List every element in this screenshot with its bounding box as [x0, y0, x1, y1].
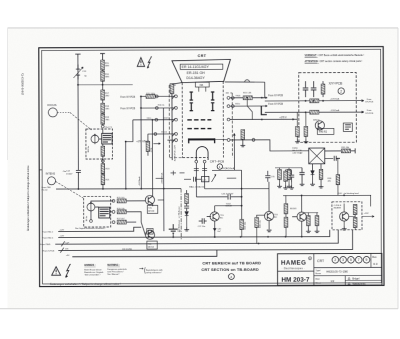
junction dot row3 rail — [152, 119, 154, 121]
wires Q5 res — [304, 213, 318, 229]
svg-text:+12V(AV)/5mA: +12V(AV)/5mA — [220, 167, 234, 170]
svg-text:Änderungen vorbehalten / Subje: Änderungen vorbehalten / Subject to chan… — [27, 165, 30, 231]
CRT-PCB dashed box top segs — [169, 85, 232, 93]
lightning bolt top — [147, 56, 152, 68]
svg-text:CRT TRAF: CRT TRAF — [292, 151, 303, 154]
wire row y168 — [275, 168, 302, 170]
junction dot R3 — [261, 119, 263, 121]
wires col285 — [285, 196, 287, 237]
wire corner x133 — [126, 120, 133, 142]
rev cell divider — [370, 253, 372, 267]
potentiometer P2 INTENS — [87, 202, 95, 212]
transistor T3 — [145, 195, 154, 204]
svg-text:+12V: +12V — [59, 230, 64, 232]
svg-text:2: 2 — [334, 258, 336, 262]
bracket note bottom — [139, 267, 162, 274]
label WARNING block — [107, 264, 126, 276]
wire intens links — [91, 201, 114, 219]
junction circle R1a — [231, 96, 234, 99]
XY row -12V — [265, 111, 364, 113]
terminal box bus1 — [147, 229, 153, 235]
CRT pin row L5 — [167, 139, 177, 143]
circled 5 title — [348, 257, 355, 264]
svg-text:4,7n: 4,7n — [202, 179, 206, 181]
drawing frame outer border — [39, 47, 384, 287]
svg-text:Brügel: Brügel — [352, 278, 359, 281]
intens potentiometer dashed box — [84, 197, 111, 227]
transistor Q5 — [297, 212, 306, 221]
box 4n7 — [202, 176, 209, 181]
svg-text:Ref 7,5: Ref 7,5 — [105, 127, 112, 129]
wire drop x173 — [172, 233, 174, 237]
transistor XY — [315, 121, 324, 130]
resistor Q5a — [307, 216, 311, 226]
svg-text:R15/2: R15/2 — [161, 132, 167, 134]
bus junction dots — [172, 236, 302, 245]
ground lp3 — [287, 184, 292, 188]
svg-text:BF258: BF258 — [148, 211, 155, 213]
board boundary dashdot — [180, 189, 182, 240]
ground XYlow1 — [295, 139, 300, 143]
junction L1 — [140, 96, 142, 98]
CRT-PCB dashed box bottom left seg — [169, 157, 182, 159]
svg-text:An/TB-PCB +12V: An/TB-PCB +12V — [173, 145, 176, 162]
label C-PULS — [334, 205, 342, 210]
svg-text:BF258: BF258 — [148, 246, 155, 248]
heater cap symbol left — [194, 169, 199, 171]
warning triangle bottom — [52, 267, 61, 276]
svg-text:Änderungen vorbehalten ! / Sub: Änderungen vorbehalten ! / Subject to ch… — [50, 282, 121, 286]
resistor leftpair3 — [287, 170, 291, 180]
bus line 5 — [72, 250, 217, 257]
wire rail163 extension — [163, 189, 165, 231]
svg-text:Blatt: Blatt — [316, 277, 321, 280]
ground leftpair1 — [300, 182, 305, 186]
top net from trapezoid right — [225, 81, 265, 83]
terminal after bridge — [350, 148, 355, 153]
svg-text:safety relevance !: safety relevance ! — [146, 271, 162, 274]
junction circle R2a — [231, 105, 234, 108]
svg-text:R16 1k: R16 1k — [158, 105, 165, 107]
resistor R1 — [101, 60, 105, 70]
paper left edge — [7, 28, 9, 160]
node junction wire y84 — [78, 84, 133, 86]
row y188.8 — [205, 188, 269, 190]
resistor row2 — [117, 210, 126, 214]
circled 3 title — [340, 257, 347, 264]
wire drop x265 — [264, 82, 266, 98]
row +10V blanking — [283, 194, 371, 196]
junction dots on bus188 — [77, 188, 164, 190]
row pin 1 — [112, 200, 115, 203]
svg-text:+170 V: +170 V — [279, 117, 287, 119]
svg-text:0.3: 0.3 — [373, 262, 378, 266]
paper right edge — [397, 28, 399, 309]
slash mark — [212, 174, 217, 182]
deflection plate X upper — [187, 119, 211, 121]
CRT envelope dashed left — [181, 83, 183, 158]
svg-text:+12V/8mA: +12V/8mA — [138, 176, 141, 186]
svg-text:WALL 1/2 AU/10: WALL 1/2 AU/10 — [189, 185, 205, 188]
junction dots rail 241 — [241, 188, 243, 207]
resistor col285 upper — [284, 204, 288, 214]
arrow XYrow2 — [362, 111, 364, 113]
arrow R3 — [292, 119, 294, 121]
ground Q5b — [315, 229, 320, 233]
CRT type box — [180, 64, 223, 69]
CRT heater arch — [196, 147, 208, 160]
potentiometer P1 FOCUS — [91, 134, 99, 144]
CRT pin row L4 — [148, 133, 178, 137]
svg-text:R25 1k5: R25 1k5 — [117, 197, 125, 199]
ground col right1 — [283, 185, 288, 189]
resistor R4 — [101, 103, 105, 113]
circled 2 title — [332, 257, 339, 264]
svg-text:From: From — [367, 99, 372, 101]
comp row upper marks — [171, 171, 185, 176]
mid pin circle row L2 — [155, 107, 158, 110]
junction dots blanking — [301, 194, 345, 196]
HAMEG logo — [281, 257, 312, 271]
svg-text:R: R — [309, 257, 311, 260]
capacitor C14 — [76, 169, 81, 189]
bridge rectifier box — [309, 148, 325, 164]
heater cap symbol right — [202, 169, 207, 171]
note line 2 top right — [305, 60, 363, 63]
ground T16 — [267, 230, 272, 232]
pin chain below focus box — [101, 160, 104, 163]
svg-text:VORSICHT : CRT Beule enthält e: VORSICHT : CRT Beule enthält elektrostat… — [305, 54, 365, 57]
ground Q6 — [342, 226, 347, 230]
svg-text:N6: N6 — [200, 83, 204, 87]
dashed box C-PULS — [332, 202, 362, 230]
capacitor leftpair1 — [299, 168, 304, 182]
svg-text:HAMEG: HAMEG — [281, 260, 307, 267]
svg-text:BD243: BD243 — [290, 208, 297, 210]
pin socket chain bottom — [101, 125, 104, 128]
svg-text:CRT: CRT — [198, 54, 207, 58]
diode mark emitter — [213, 228, 217, 231]
wide ground mark — [169, 224, 178, 233]
svg-text:INTENS: INTENS — [46, 172, 56, 176]
capacitor C15 col — [186, 190, 188, 194]
note line 1 top right — [305, 54, 365, 57]
svg-text:C45 4n7/63V: C45 4n7/63V — [221, 194, 234, 196]
svg-text:R26 10k: R26 10k — [117, 208, 126, 210]
svg-text:100n: 100n — [147, 118, 152, 120]
ground XYlow2 — [304, 139, 309, 143]
wire Z1 down — [320, 179, 322, 184]
resistor XY3 — [321, 84, 325, 94]
resistor col285 lower — [284, 217, 288, 227]
svg-text:4n7: 4n7 — [218, 231, 221, 233]
resistor Z1 — [319, 169, 323, 179]
wires Q6 — [344, 203, 355, 229]
svg-text:· Oscilloscopes ·: · Oscilloscopes · — [282, 267, 306, 270]
warning triangle top — [137, 58, 144, 67]
CRT pin row R1 — [227, 96, 265, 99]
heater pin left — [195, 160, 198, 163]
svg-text:–12V/5mA: –12V/5mA — [330, 109, 340, 112]
ground R4 — [240, 143, 245, 147]
svg-text:CRT BEREICH auf TB BOARD: CRT BEREICH auf TB BOARD — [202, 260, 261, 265]
svg-text:ATTENTION : CRT section contai: ATTENTION : CRT section contains safety … — [305, 60, 363, 63]
svg-text:Name: Name — [316, 273, 322, 275]
svg-text:Waldschmitt: Waldschmitt — [352, 283, 365, 286]
rail x163 — [162, 108, 164, 189]
relay box XY — [343, 123, 352, 131]
row y205.8 — [215, 205, 242, 207]
resistor R2 — [101, 71, 105, 81]
wire row2 stub — [110, 211, 112, 213]
bus line 1 — [58, 227, 141, 231]
diagonal link rows R1R2 — [247, 98, 252, 120]
svg-text:HM203,/05–73–1980: HM203,/05–73–1980 — [326, 272, 348, 274]
circled number 1 — [217, 164, 222, 169]
CRT tube trapezoid — [172, 59, 231, 82]
resistor Q6b — [353, 217, 357, 227]
svg-text:7: 7 — [358, 258, 360, 262]
svg-text:HM 203-7: HM 203-7 — [281, 276, 310, 283]
deflection plate Y2 right — [211, 103, 214, 111]
transistor Q6 — [340, 212, 349, 221]
svg-text:From X/Y-PCB: From X/Y-PCB — [120, 107, 135, 110]
diode D16 — [185, 212, 189, 228]
svg-text:INVERT: INVERT — [334, 208, 342, 210]
junction dot — [102, 84, 104, 86]
main bus y188 — [56, 188, 181, 190]
heater pin right — [203, 160, 206, 163]
svg-text:CRT–PCB: CRT–PCB — [210, 159, 224, 163]
svg-text:R35 22k: R35 22k — [245, 222, 247, 229]
resistor R1row — [243, 96, 252, 100]
label HINWEIS block — [84, 265, 104, 276]
rail x241.5 — [241, 170, 243, 219]
intens module box — [99, 207, 110, 218]
heater drop wires — [196, 163, 204, 197]
resistor chain R21 — [101, 175, 105, 185]
wire R4 res stub — [242, 140, 244, 143]
CRT pin row R2 — [227, 105, 261, 108]
capacitor under C15 — [184, 204, 189, 212]
svg-text:Nur Original-Ersatzteile verwe: Nur Original-Ersatzteile verwenden ! — [75, 227, 106, 230]
label +12V arrow right — [362, 213, 374, 218]
bleeder chain wire — [102, 60, 104, 125]
circled 9 title — [363, 256, 370, 263]
junction L2 — [140, 107, 142, 109]
label box T15 row — [226, 203, 233, 207]
svg-text:Ser. Manual !: Ser. Manual ! — [107, 273, 120, 276]
svg-text:auf TB-Board · on TB-Board: auf TB-Board · on TB-Board — [178, 207, 181, 233]
wires mid resistors — [242, 215, 257, 243]
deflection plate X lower — [187, 128, 211, 130]
resistor x172 top — [170, 84, 174, 94]
slash bus4 — [60, 248, 64, 253]
transistor T4 — [145, 230, 154, 239]
resistor C15 — [185, 194, 189, 204]
junction dot — [77, 84, 79, 86]
resistor R36 — [255, 218, 259, 228]
lightning bolt bottom — [65, 264, 71, 278]
resistor after bridge — [341, 149, 350, 153]
svg-text:2: 2 — [340, 90, 342, 94]
rail x130 — [125, 142, 127, 189]
svg-text:HINWEIS :: HINWEIS : — [84, 265, 95, 267]
trimmer capacitor C13 — [73, 64, 83, 79]
svg-text:1/2: 1/2 — [331, 279, 335, 283]
resistor XYlow1 — [296, 126, 300, 136]
label name 2 — [348, 282, 366, 285]
wire T3 emitter — [153, 200, 164, 206]
deflection plate Y1 left — [190, 92, 193, 100]
capacitor XY2 — [311, 81, 317, 97]
svg-text:X/Y-PCB: X/Y-PCB — [365, 101, 373, 103]
ground lp2 — [277, 184, 282, 188]
resistor XYrow2 — [310, 110, 319, 114]
svg-text:X/Y-PCB: X/Y-PCB — [365, 113, 373, 115]
label sheet — [316, 277, 335, 284]
resistor rowL1 — [146, 94, 155, 98]
rail x141 — [140, 108, 142, 189]
leader dotted focus — [57, 111, 69, 113]
svg-text:3: 3 — [342, 258, 344, 262]
arrow XYrow1 — [361, 100, 363, 102]
terminal post top-left — [75, 54, 80, 57]
svg-text:1n/4kV: 1n/4kV — [66, 173, 73, 175]
wire T15 base emitter — [207, 216, 215, 237]
comp row y177 — [184, 177, 201, 182]
wire row1 to T3 — [126, 200, 145, 202]
svg-text:WARNING :: WARNING : — [107, 264, 120, 267]
svg-text:D14-364GY: D14-364GY — [186, 76, 205, 80]
circled number 2 — [338, 88, 344, 94]
svg-text:TR45: TR45 — [235, 95, 241, 97]
focus potentiometer dashed box — [86, 129, 113, 159]
bus line 3 — [55, 230, 338, 244]
junction circle R4 — [252, 138, 255, 141]
paper top edge — [8, 27, 399, 29]
svg-text:+12V/5mA: +12V/5mA — [330, 98, 340, 101]
label type name — [316, 270, 322, 275]
svg-text:Sheet: Sheet — [316, 282, 322, 285]
wire focus chain down — [102, 144, 104, 189]
CRT pin row L1 — [141, 95, 177, 99]
label From XY right1 — [365, 99, 374, 104]
ground Z1 — [319, 184, 324, 188]
resistor chain R20 — [101, 164, 105, 174]
deflection plate Y1 right — [211, 92, 214, 100]
wire trapezoid left leg — [172, 83, 182, 85]
CRT screen end tabs — [189, 138, 215, 143]
wire bridge right row — [325, 150, 341, 152]
title block divider vertical main — [313, 254, 315, 286]
label name 1 — [348, 277, 360, 280]
svg-text:+12V: +12V — [364, 213, 370, 215]
transistor T16 — [264, 211, 273, 220]
paper bottom edge — [0, 308, 398, 310]
CRT envelope dashed bottom — [182, 157, 207, 159]
wire T16 leads — [256, 182, 269, 230]
wire link L1L2 — [140, 96, 142, 108]
junction dot T15 emitter — [214, 236, 216, 238]
wire XY3 stubs — [322, 81, 324, 97]
svg-text:R36 10k: R36 10k — [260, 220, 262, 227]
circled 7 title — [355, 256, 362, 263]
svg-text:ER-151 GH: ER-151 GH — [187, 71, 206, 75]
title row divider 2 — [314, 275, 382, 277]
mid pin circle row L1 — [155, 95, 158, 98]
label CRT TRAF lines — [292, 147, 303, 154]
svg-text:From TB45: From TB45 — [40, 243, 51, 246]
capacitor C16 — [228, 194, 230, 199]
ground Q5a — [306, 229, 311, 233]
svg-text:2M2 lin: 2M2 lin — [88, 146, 90, 153]
resistor rail338 — [336, 175, 340, 185]
circled number sheet — [228, 274, 234, 280]
capacitor after bridge — [334, 156, 340, 161]
svg-text:From TB1 2: From TB1 2 — [42, 230, 54, 233]
svg-text:CRT SECTION on TB-BOARD: CRT SECTION on TB-BOARD — [201, 267, 259, 272]
deflection plate Y2 left — [190, 103, 193, 111]
wires col right pair — [286, 170, 292, 186]
resistor L4 vertical — [146, 141, 150, 151]
wire bridge bottom drops — [312, 164, 321, 171]
neck stub wires — [199, 87, 206, 92]
bold jog R2 — [261, 106, 267, 115]
label T16 — [274, 214, 278, 218]
svg-text:+170 V/5mA: +170 V/5mA — [136, 140, 149, 143]
drawing frame inner border — [42, 49, 382, 284]
svg-text:DN 1G/9Ω: DN 1G/9Ω — [122, 249, 132, 251]
XY row +12V — [265, 100, 364, 102]
row pin 3 — [112, 221, 115, 224]
resistor row1 — [117, 199, 126, 203]
CRT pin row R4 — [227, 138, 309, 151]
svg-text:Pin 10: Pin 10 — [42, 189, 49, 191]
svg-text:From Y-PCB: From Y-PCB — [43, 249, 55, 252]
svg-text:(06-5-99/203-7): (06-5-99/203-7) — [21, 74, 25, 96]
svg-text:5: 5 — [350, 258, 352, 262]
ground D15 — [310, 182, 315, 186]
svg-text:BC548: BC548 — [226, 206, 233, 208]
CRT pin row R3 — [227, 118, 297, 121]
svg-text:B15x: B15x — [235, 103, 240, 105]
resistor R35 — [240, 219, 244, 229]
comp row y178 right dash — [227, 177, 236, 179]
capacitor XY1 — [303, 81, 309, 97]
diode D15 — [311, 171, 315, 182]
FOCUS knob circle — [48, 108, 57, 117]
leader dotted intens — [56, 181, 84, 198]
CRT envelope dashed right — [222, 81, 224, 157]
resistor Q5b — [315, 216, 319, 226]
arrow marker x234 — [233, 133, 235, 170]
XY-PCB dashed box — [299, 72, 357, 142]
fold mark tick left edge — [39, 169, 42, 171]
svg-text:FOCUS: FOCUS — [47, 103, 56, 107]
rail x172 — [171, 84, 173, 160]
junction dot corner130 — [125, 141, 127, 143]
svg-text:R45 R2: R45 R2 — [319, 131, 328, 134]
CRT-PCB dashed box right edge — [231, 93, 233, 157]
pin intens small — [90, 220, 93, 223]
svg-text:2: 2 — [230, 275, 232, 279]
wire screen to pin R4 — [215, 138, 227, 140]
CRT screen bar — [188, 138, 215, 140]
wire x370 stub — [369, 195, 371, 206]
title row divider 1 — [314, 266, 382, 268]
svg-text:CRT: CRT — [317, 259, 324, 263]
